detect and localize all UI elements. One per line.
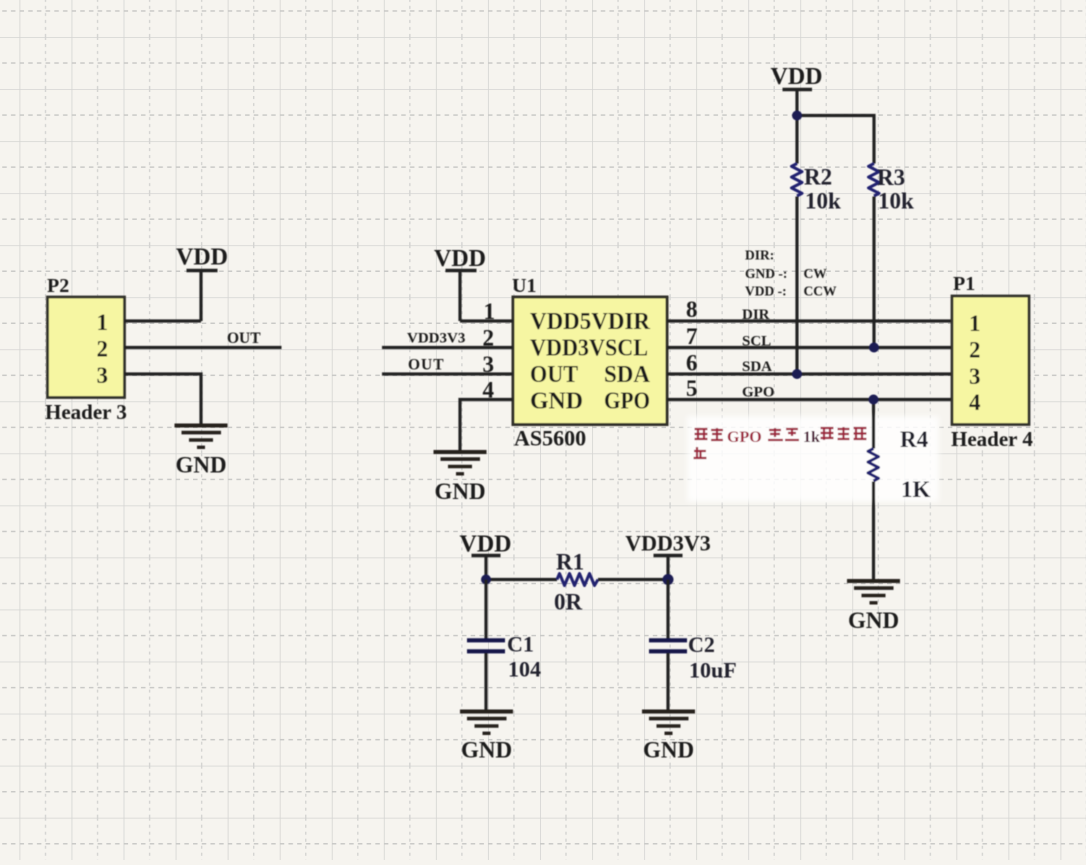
wire R1 to VDD3V3 bbox=[598, 578, 668, 581]
svg-text:VDD: VDD bbox=[771, 64, 823, 90]
power VDD3V3 bbox=[625, 531, 711, 580]
power VDD (P2) bbox=[176, 245, 228, 322]
svg-text:GPO: GPO bbox=[604, 389, 650, 415]
annotation fake CJK glyphs line1 bbox=[695, 427, 867, 440]
svg-text:Header 3: Header 3 bbox=[45, 400, 127, 424]
svg-text:10uF: 10uF bbox=[689, 658, 737, 683]
svg-text:SDA: SDA bbox=[604, 362, 651, 388]
ground GND (C1) bbox=[460, 712, 513, 763]
ground GND (U1) bbox=[434, 452, 487, 504]
svg-text:4: 4 bbox=[969, 390, 981, 415]
svg-text:C1: C1 bbox=[507, 632, 534, 657]
svg-text:3: 3 bbox=[97, 363, 109, 388]
svg-text:VDD: VDD bbox=[176, 245, 228, 271]
svg-text:GND: GND bbox=[530, 389, 583, 415]
capacitor C1 bbox=[467, 580, 541, 711]
power VDD (filter) bbox=[460, 532, 512, 580]
connector P1 bbox=[951, 273, 1033, 451]
svg-text:1k: 1k bbox=[803, 429, 820, 446]
svg-text:GPO: GPO bbox=[742, 385, 775, 401]
ground GND (P2) bbox=[175, 426, 228, 478]
svg-text:CCW: CCW bbox=[804, 283, 837, 298]
wire U1 pin1 bbox=[460, 319, 513, 322]
annotation red note line2 CJK bbox=[694, 447, 707, 458]
svg-text:2: 2 bbox=[969, 338, 981, 363]
power VDD (U1 pin1) bbox=[434, 246, 486, 321]
wire P2.2 OUT net bbox=[125, 346, 282, 349]
svg-text:2: 2 bbox=[97, 337, 109, 362]
wire SDA (U1.6 to P1.3) bbox=[667, 372, 952, 375]
svg-text:8: 8 bbox=[686, 297, 698, 322]
svg-text:R1: R1 bbox=[556, 550, 584, 575]
wire DIR (U1.8 to P1.1) bbox=[667, 319, 952, 322]
resistor R2 bbox=[792, 164, 842, 214]
wire VDD to R1 bbox=[486, 578, 557, 581]
svg-text:CW: CW bbox=[804, 266, 828, 281]
svg-text:GND -:: GND -: bbox=[745, 266, 787, 281]
wire U1 pin4 to GND bbox=[460, 400, 513, 452]
P1 pin numbers 1 2 3 4 bbox=[969, 311, 981, 415]
op IC U1 AS5600 bbox=[512, 275, 667, 451]
svg-text:10k: 10k bbox=[878, 189, 914, 214]
svg-text:C2: C2 bbox=[688, 632, 715, 657]
junction VDD/R3 bbox=[792, 111, 802, 121]
wire GPO (U1.5 to P1.4) bbox=[667, 398, 952, 401]
resistor R3 bbox=[869, 164, 915, 214]
junction GPO/R4 bbox=[869, 395, 879, 405]
junction VDD/C1 bbox=[481, 575, 491, 585]
svg-text:VDD: VDD bbox=[460, 532, 512, 558]
svg-text:1: 1 bbox=[969, 311, 981, 336]
svg-text:1K: 1K bbox=[901, 477, 931, 502]
svg-text:P2: P2 bbox=[47, 275, 69, 297]
svg-text:VDD -:: VDD -: bbox=[745, 283, 787, 298]
U1 right pin numbers 8 7 6 5 bbox=[686, 297, 698, 401]
svg-text:104: 104 bbox=[508, 657, 541, 682]
U1 pin names bbox=[530, 309, 651, 415]
svg-text:GND: GND bbox=[461, 738, 512, 763]
svg-text:VDD: VDD bbox=[434, 246, 486, 272]
resistor R1 bbox=[554, 550, 598, 615]
svg-text:VDD3V3: VDD3V3 bbox=[407, 331, 465, 347]
svg-text:Header 4: Header 4 bbox=[951, 427, 1033, 451]
svg-text:OUT: OUT bbox=[408, 357, 445, 374]
svg-text:GND: GND bbox=[643, 738, 694, 763]
svg-text:6: 6 bbox=[686, 351, 698, 376]
svg-text:AS5600: AS5600 bbox=[514, 426, 586, 451]
wire U1 pin2 VDD3V3 bbox=[382, 346, 513, 349]
svg-text:GND: GND bbox=[175, 453, 226, 478]
svg-text:R2: R2 bbox=[804, 165, 832, 190]
svg-text:VDD3VSCL: VDD3VSCL bbox=[530, 336, 648, 362]
svg-text:R4: R4 bbox=[900, 427, 929, 452]
svg-text:3: 3 bbox=[969, 364, 981, 389]
svg-text:10k: 10k bbox=[805, 189, 841, 214]
wire U1 pin3 OUT bbox=[382, 372, 513, 375]
annotation red note latin GPO 1k bbox=[727, 429, 820, 446]
svg-text:GND: GND bbox=[434, 479, 485, 504]
svg-text:7: 7 bbox=[686, 324, 698, 349]
svg-text:GPO: GPO bbox=[727, 429, 762, 446]
wire VDD branch to R3 bbox=[797, 116, 874, 164]
svg-text:1: 1 bbox=[97, 310, 109, 335]
svg-text:DIR:: DIR: bbox=[745, 248, 774, 263]
wire R4 to GND bbox=[872, 482, 875, 581]
svg-text:R3: R3 bbox=[877, 165, 905, 190]
wire SCL (U1.7 to P1.2) bbox=[667, 346, 952, 349]
U1 left pin numbers 1 2 3 4 bbox=[483, 299, 496, 403]
svg-text:OUT: OUT bbox=[227, 330, 261, 347]
ground GND (R4) bbox=[847, 581, 900, 633]
connector P2 bbox=[45, 275, 127, 424]
DIR note text bbox=[745, 248, 837, 299]
resistor R4 bbox=[868, 400, 931, 503]
capacitor C2 bbox=[649, 580, 737, 711]
svg-text:0R: 0R bbox=[554, 590, 583, 615]
junction VDD3V3/C2 bbox=[663, 574, 674, 585]
svg-text:GND: GND bbox=[848, 608, 899, 633]
wire P2.3 to GND bbox=[125, 374, 202, 425]
svg-text:OUT: OUT bbox=[530, 362, 578, 388]
svg-text:SCL: SCL bbox=[742, 334, 771, 350]
svg-text:U1: U1 bbox=[512, 275, 536, 297]
junction R2/SDA bbox=[792, 369, 802, 379]
wire P2.1 to VDD bbox=[125, 319, 202, 322]
P2 pin numbers 1 2 3 bbox=[97, 310, 109, 388]
power VDD (pull-ups) bbox=[771, 64, 823, 164]
svg-text:P1: P1 bbox=[953, 273, 975, 295]
junction R3/SCL bbox=[869, 343, 879, 353]
svg-text:SDA: SDA bbox=[742, 359, 772, 375]
wire R3 to SCL bbox=[872, 197, 875, 348]
svg-text:DIR: DIR bbox=[742, 307, 770, 323]
svg-text:VDD5VDIR: VDD5VDIR bbox=[530, 309, 651, 335]
ground GND (C2) bbox=[642, 712, 695, 763]
wire R2 to SDA bbox=[795, 197, 798, 375]
svg-text:VDD3V3: VDD3V3 bbox=[625, 531, 711, 556]
svg-text:5: 5 bbox=[686, 376, 698, 401]
white note patch bbox=[687, 416, 939, 502]
